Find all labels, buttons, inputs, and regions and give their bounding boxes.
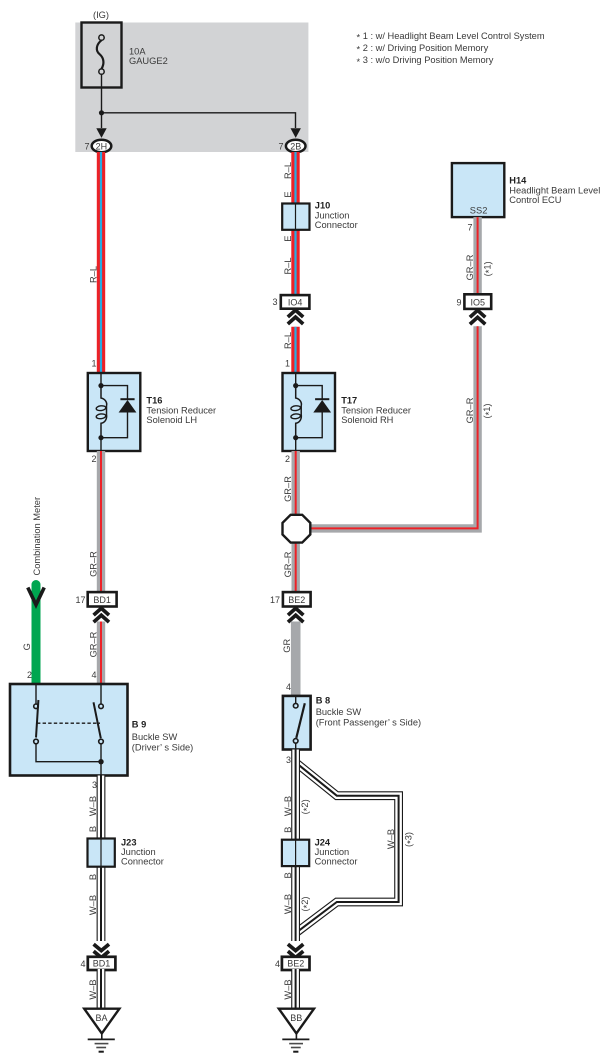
svg-text:GAUGE2: GAUGE2 bbox=[129, 56, 168, 66]
svg-text:10A: 10A bbox=[129, 47, 146, 57]
svg-text:GR–R: GR–R bbox=[283, 551, 293, 577]
svg-text:SS2: SS2 bbox=[470, 206, 488, 216]
svg-text:GR–R: GR–R bbox=[88, 631, 98, 657]
svg-text:BA: BA bbox=[95, 1013, 107, 1023]
svg-text:W–B: W–B bbox=[386, 829, 396, 849]
svg-text:B 9: B 9 bbox=[132, 720, 146, 730]
node junction dot bbox=[99, 110, 104, 115]
wire R-L (2B to IO4) bbox=[291, 152, 299, 295]
svg-text:* 1 : w/ Headlight Beam Level: * 1 : w/ Headlight Beam Level Control Sy… bbox=[357, 31, 545, 43]
svg-text:(Front Passenger’ s Side): (Front Passenger’ s Side) bbox=[316, 717, 421, 727]
connector 2H bbox=[92, 140, 112, 153]
connector BD1 bbox=[88, 592, 117, 606]
svg-text:GR–R: GR–R bbox=[465, 397, 475, 423]
svg-text:2: 2 bbox=[27, 670, 32, 680]
svg-text:B: B bbox=[283, 827, 293, 833]
arrow into 2H bbox=[96, 128, 106, 138]
svg-text:BE2: BE2 bbox=[287, 959, 304, 969]
svg-text:G: G bbox=[22, 643, 32, 650]
wire GR-R horizontal to H14 branch bbox=[308, 326, 478, 528]
svg-text:R–L: R–L bbox=[88, 266, 98, 283]
svg-text:9: 9 bbox=[456, 297, 461, 307]
connector 2B bbox=[286, 140, 306, 153]
wire GR (chevron to B8) bbox=[291, 622, 301, 696]
svg-text:4: 4 bbox=[80, 959, 85, 969]
wire W-B (B9 to chevron) bbox=[97, 776, 106, 942]
wire GR-R (T16 to BD1) bbox=[97, 451, 105, 592]
solenoid T17 bbox=[283, 373, 336, 451]
node octagon junction bbox=[283, 515, 311, 543]
ground symbol BB bbox=[282, 1033, 309, 1051]
svg-text:R–L: R–L bbox=[283, 162, 293, 179]
svg-text:Solenoid RH: Solenoid RH bbox=[341, 415, 393, 425]
wire W-B (BE2 to ground) bbox=[291, 969, 300, 1009]
svg-text:R–L: R–L bbox=[283, 332, 293, 349]
chevron down above BE2 bbox=[288, 944, 303, 957]
wire fuse to split node bbox=[101, 74, 103, 113]
chevron up below IO4 bbox=[288, 310, 303, 324]
svg-text:Combination Meter: Combination Meter bbox=[32, 497, 42, 576]
svg-text:17: 17 bbox=[75, 595, 85, 605]
svg-text:W–B: W–B bbox=[283, 796, 293, 816]
svg-text:4: 4 bbox=[91, 670, 96, 680]
wire W-B bypass loop *3 bbox=[297, 764, 398, 932]
svg-text:GR–R: GR–R bbox=[283, 476, 293, 502]
svg-text:(*1): (*1) bbox=[482, 403, 494, 418]
wire W-B (BD1 to ground) bbox=[97, 969, 106, 1009]
junction connector J23 bbox=[88, 839, 115, 867]
svg-text:E: E bbox=[283, 236, 293, 242]
svg-text:2B: 2B bbox=[290, 141, 301, 151]
svg-text:Connector: Connector bbox=[315, 857, 358, 867]
svg-text:7: 7 bbox=[278, 141, 283, 151]
svg-text:(*2): (*2) bbox=[300, 799, 312, 814]
svg-text:3: 3 bbox=[92, 780, 97, 790]
svg-text:Solenoid LH: Solenoid LH bbox=[146, 415, 197, 425]
svg-text:3: 3 bbox=[272, 297, 277, 307]
note legend bbox=[357, 31, 545, 67]
svg-text:Tension Reducer: Tension Reducer bbox=[341, 406, 411, 416]
arrow into 2B bbox=[291, 128, 301, 138]
svg-text:4: 4 bbox=[275, 959, 280, 969]
wire split horizontal bbox=[102, 113, 296, 128]
junction connector J10 bbox=[282, 204, 309, 230]
svg-text:Connector: Connector bbox=[121, 857, 164, 867]
buckle switch B9 bbox=[10, 684, 128, 776]
wire GR-R (chevron to B9) bbox=[97, 622, 105, 685]
svg-text:B: B bbox=[88, 826, 98, 832]
svg-text:Tension Reducer: Tension Reducer bbox=[146, 406, 216, 416]
svg-text:J10: J10 bbox=[315, 201, 331, 211]
svg-text:Headlight Beam Level: Headlight Beam Level bbox=[509, 186, 600, 196]
svg-text:4: 4 bbox=[286, 682, 291, 692]
svg-text:Connector: Connector bbox=[315, 220, 358, 230]
svg-text:W–B: W–B bbox=[88, 979, 98, 999]
svg-text:W–B: W–B bbox=[88, 796, 98, 816]
svg-text:GR–R: GR–R bbox=[88, 551, 98, 577]
svg-text:* 2 : w/ Driving Position Memo: * 2 : w/ Driving Position Memory bbox=[357, 43, 489, 55]
power rail gray box bbox=[75, 23, 308, 153]
svg-text:BD1: BD1 bbox=[93, 959, 111, 969]
svg-text:W–B: W–B bbox=[283, 894, 293, 914]
solenoid T16 bbox=[88, 373, 141, 451]
svg-text:(Driver’ s Side): (Driver’ s Side) bbox=[132, 742, 193, 752]
arrow from combination meter bbox=[28, 588, 44, 605]
svg-text:* 3 : w/o Driving Position Mem: * 3 : w/o Driving Position Memory bbox=[357, 55, 494, 67]
svg-text:1: 1 bbox=[285, 359, 290, 369]
wire W-B (B8 to chevron) bbox=[291, 750, 300, 942]
svg-text:J23: J23 bbox=[121, 837, 137, 847]
svg-text:BE2: BE2 bbox=[288, 595, 305, 605]
svg-text:T16: T16 bbox=[146, 395, 162, 405]
svg-text:W–B: W–B bbox=[283, 979, 293, 999]
connector BE2 bbox=[283, 592, 311, 606]
svg-text:IO4: IO4 bbox=[288, 297, 303, 307]
svg-text:IO5: IO5 bbox=[471, 297, 486, 307]
chevron up below BE2 bbox=[288, 608, 303, 622]
connector BD1 bottom bbox=[88, 957, 116, 970]
chevron up below BD1 bbox=[94, 608, 109, 622]
chevron down above BD1 bbox=[94, 944, 109, 957]
fuse F1 10A GAUGE2 bbox=[82, 23, 122, 88]
ground point BA bbox=[84, 1009, 119, 1034]
svg-text:7: 7 bbox=[467, 223, 472, 233]
wire R-L left (2H to T16) bbox=[97, 152, 105, 373]
buckle switch B8 bbox=[283, 696, 311, 750]
junction connector J24 bbox=[282, 840, 309, 866]
wire GR-R (H14 to IO5) bbox=[473, 217, 481, 294]
svg-text:J24: J24 bbox=[315, 837, 331, 847]
svg-text:GR: GR bbox=[282, 639, 292, 653]
svg-text:GR–R: GR–R bbox=[465, 254, 475, 280]
svg-text:BD1: BD1 bbox=[93, 595, 111, 605]
ECU H14 bbox=[452, 163, 504, 217]
svg-text:T17: T17 bbox=[341, 395, 357, 405]
svg-text:Buckle SW: Buckle SW bbox=[132, 732, 178, 742]
svg-text:7: 7 bbox=[84, 141, 89, 151]
ground symbol BA bbox=[88, 1033, 115, 1051]
svg-text:17: 17 bbox=[270, 595, 280, 605]
svg-text:B 8: B 8 bbox=[316, 696, 330, 706]
svg-text:1: 1 bbox=[91, 359, 96, 369]
svg-text:Buckle SW: Buckle SW bbox=[316, 707, 362, 717]
connector BE2 bottom bbox=[282, 957, 310, 970]
svg-text:(*2): (*2) bbox=[300, 896, 312, 911]
svg-text:2: 2 bbox=[91, 454, 96, 464]
connector IO4 bbox=[281, 295, 310, 309]
svg-text:B: B bbox=[88, 874, 98, 880]
chevron up below IO5 bbox=[470, 310, 485, 324]
connector IO5 bbox=[464, 294, 491, 309]
svg-text:R–L: R–L bbox=[283, 257, 293, 274]
svg-text:(IG): (IG) bbox=[93, 10, 109, 20]
ground point BB bbox=[279, 1009, 314, 1034]
svg-text:Control ECU: Control ECU bbox=[509, 195, 561, 205]
svg-text:B: B bbox=[283, 872, 293, 878]
wire G green from combination meter bbox=[32, 585, 41, 685]
svg-text:H14: H14 bbox=[509, 176, 527, 186]
svg-text:3: 3 bbox=[286, 755, 291, 765]
svg-text:W–B: W–B bbox=[88, 895, 98, 915]
svg-text:(*1): (*1) bbox=[482, 261, 494, 276]
wire R-L (chevron to T17) bbox=[291, 327, 299, 373]
svg-text:E: E bbox=[283, 191, 293, 197]
wire GR-R (T17 to BE2) bbox=[292, 451, 300, 592]
wire stem left bbox=[101, 113, 103, 128]
svg-text:2H: 2H bbox=[96, 141, 108, 151]
svg-text:2: 2 bbox=[285, 454, 290, 464]
svg-text:(*3): (*3) bbox=[404, 832, 416, 847]
svg-text:BB: BB bbox=[290, 1013, 302, 1023]
